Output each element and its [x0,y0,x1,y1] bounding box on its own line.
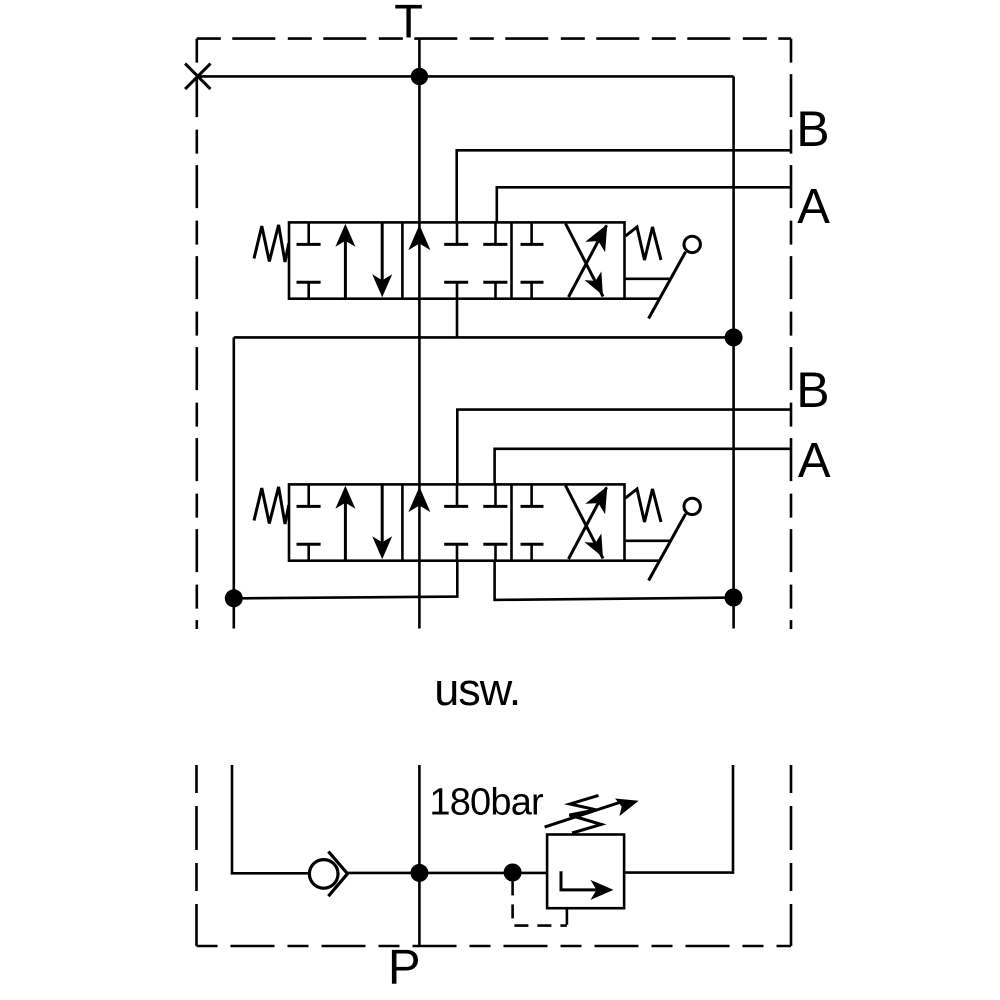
junction: P trunk / pump line [410,864,428,882]
check valve CV1: body circle [309,860,338,889]
svg-text:B: B [796,362,829,418]
wire: center trunk (T to P manifold gallery) [418,39,421,629]
junction: T trunk / tank header [411,68,428,85]
relief valve RV1: adjustable spring [569,795,601,833]
wire: A2 [495,449,791,485]
wire: return line [234,336,734,339]
enclosure: upper subplate dashed border, top edge [197,37,791,40]
wire: left rail into pump line [232,765,308,873]
wire: left rail [233,337,236,628]
wire: B2 [457,410,790,485]
junction: right trunk / V2 line [725,589,743,607]
junction: return line / right trunk [725,328,743,346]
relief valve RV1: drain stub [566,908,569,925]
svg-text:A: A [797,180,830,234]
enclosure: upper right dashed border [790,39,793,629]
wire: pump line (check valve to relief valve) [348,872,548,875]
svg-text:P: P [388,940,421,994]
relief valve RV1: adjustment arrow [545,801,624,827]
wire: V1 bottom port to return line [456,299,459,338]
svg-text:B: B [796,101,829,157]
svg-text:180bar: 180bar [429,781,544,823]
relief valve RV1: body [547,835,624,909]
wire: right trunk [732,76,735,628]
enclosure: lower subplate dashed border, left [195,765,198,946]
svg-text:A: A [798,434,831,488]
wire: P trunk [418,765,421,946]
wire: V2 B-side bottom port to left rail [234,561,457,599]
check valve CV1: seat [328,852,347,897]
enclosure: lower subplate dashed border, bottom [197,945,792,948]
svg-text:usw.: usw. [434,664,520,715]
wire: tank header [198,75,734,78]
enclosure: upper left dashed border [196,39,199,629]
wire: B1 [457,150,791,223]
plugged port (X) on left border [185,64,210,90]
wire: V2 A-side bottom port to right trunk [495,561,734,600]
wire: A1 [497,187,791,223]
junction: pilot tap / pump line [504,864,522,882]
relief valve RV1: pilot line (dashed) [513,881,567,925]
wire: relief valve outlet to right trunk [624,765,733,873]
enclosure: lower subplate dashed border, right [790,765,793,946]
valve V1 (upper 4/3 hand-lever valve) [254,219,700,318]
valve V2 (lower 4/3 hand-lever valve) [254,481,700,580]
relief valve RV1: flow path arrow [561,871,601,890]
junction: left rail / V2 return [225,589,243,607]
